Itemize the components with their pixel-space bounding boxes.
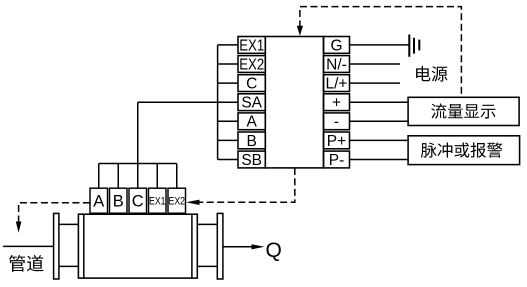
wire stub to SA bbox=[218, 101, 238, 103]
converter left terminal A bbox=[238, 113, 265, 131]
svg-text:L/+: L/+ bbox=[326, 76, 348, 93]
left flange plate bbox=[54, 213, 59, 279]
converter left terminal EX2 bbox=[238, 56, 265, 74]
svg-text:B: B bbox=[113, 193, 124, 211]
sensor body right end plate bbox=[191, 214, 193, 278]
harness wire to sensor B bbox=[117, 164, 119, 189]
dashed ground wire left of sensor bbox=[19, 203, 90, 222]
svg-text:N/-: N/- bbox=[326, 56, 347, 73]
pipe line right (flow out) bbox=[223, 246, 252, 248]
svg-text:SA: SA bbox=[241, 95, 262, 112]
converter right terminal + bbox=[324, 94, 350, 112]
left terminal bus wire bbox=[217, 45, 219, 160]
svg-text:A: A bbox=[247, 114, 258, 131]
converter right terminal L/+ bbox=[324, 75, 350, 93]
label 流量显示 bbox=[431, 103, 495, 118]
converter right terminal P+ bbox=[324, 132, 350, 150]
label 脉冲或报警 bbox=[421, 142, 503, 157]
harness wire to sensor EX1 bbox=[156, 164, 158, 189]
harness wire to sensor EX2 bbox=[176, 164, 178, 189]
sensor terminal EX2 bbox=[168, 188, 186, 213]
svg-text:EX1: EX1 bbox=[149, 196, 166, 208]
right pipe neck bbox=[197, 224, 217, 266]
svg-text:+: + bbox=[332, 95, 341, 112]
svg-text:C: C bbox=[132, 193, 144, 211]
left pipe neck bbox=[59, 224, 79, 266]
converter right terminal N/- bbox=[324, 56, 350, 74]
sensor body left end plate bbox=[83, 214, 85, 278]
svg-text:B: B bbox=[247, 133, 257, 150]
wire SA to sensor junction bbox=[138, 101, 218, 103]
svg-text:P-: P- bbox=[329, 152, 345, 169]
sensor terminal C bbox=[129, 188, 147, 213]
flow arrow Q bbox=[252, 244, 265, 249]
wire stub to B bbox=[218, 139, 238, 141]
converter right terminal - bbox=[324, 113, 350, 131]
wire from - bbox=[350, 120, 409, 122]
wire stub to A bbox=[218, 120, 238, 122]
converter left terminal SA bbox=[238, 94, 265, 112]
sensor terminal EX1 bbox=[149, 188, 167, 213]
harness wire to sensor C bbox=[137, 164, 139, 189]
arrow into converter top bbox=[297, 26, 303, 36]
svg-text:A: A bbox=[93, 193, 104, 211]
converter left terminal C bbox=[238, 75, 265, 93]
sensor wiring harness bar bbox=[99, 163, 177, 165]
svg-text:EX1: EX1 bbox=[239, 37, 264, 54]
arrow down to pipe bbox=[16, 222, 22, 233]
svg-text:-: - bbox=[334, 114, 339, 131]
svg-text:EX2: EX2 bbox=[169, 196, 186, 208]
converter left terminal SB bbox=[238, 151, 265, 169]
ground symbol bbox=[409, 35, 419, 57]
wire stub to SB bbox=[218, 159, 238, 161]
harness wire to sensor A bbox=[98, 164, 100, 189]
svg-text:C: C bbox=[246, 76, 257, 93]
pipe line left bbox=[3, 245, 54, 247]
svg-text:G: G bbox=[330, 37, 342, 54]
label 管道 bbox=[9, 255, 44, 272]
wire from P- bbox=[350, 159, 409, 161]
wire from G bbox=[350, 44, 409, 46]
flow display box bbox=[408, 97, 519, 125]
sensor terminal A bbox=[90, 188, 108, 213]
wire from N/- bbox=[350, 63, 401, 65]
dashed wire converter top to display bbox=[300, 7, 462, 98]
wire from L/+ bbox=[350, 82, 401, 84]
arrow into EX2 bbox=[186, 200, 200, 205]
svg-text:EX2: EX2 bbox=[239, 56, 264, 73]
converter body U1 bbox=[265, 37, 323, 168]
wire drop to sensor comb bbox=[137, 102, 139, 163]
wire stub to C bbox=[218, 82, 238, 84]
converter left terminal B bbox=[238, 132, 265, 150]
wire from P+ bbox=[350, 139, 409, 141]
flowmeter sensor body bbox=[78, 214, 197, 278]
svg-text:P+: P+ bbox=[327, 133, 346, 150]
wire stub to EX1 bbox=[218, 44, 238, 46]
pulse or alarm box bbox=[408, 136, 519, 165]
label 电源 (power) bbox=[416, 66, 447, 82]
converter left terminal EX1 bbox=[238, 37, 265, 55]
converter right terminal G bbox=[324, 37, 350, 55]
svg-text:Q: Q bbox=[266, 239, 282, 262]
right flange plate bbox=[217, 213, 223, 279]
wire stub to EX2 bbox=[218, 63, 238, 65]
wire from + bbox=[350, 101, 409, 103]
dashed wire converter bottom to sensor EX2 bbox=[200, 168, 295, 202]
converter right terminal P- bbox=[324, 151, 350, 169]
svg-text:SB: SB bbox=[241, 152, 262, 169]
sensor terminal B bbox=[110, 188, 128, 213]
